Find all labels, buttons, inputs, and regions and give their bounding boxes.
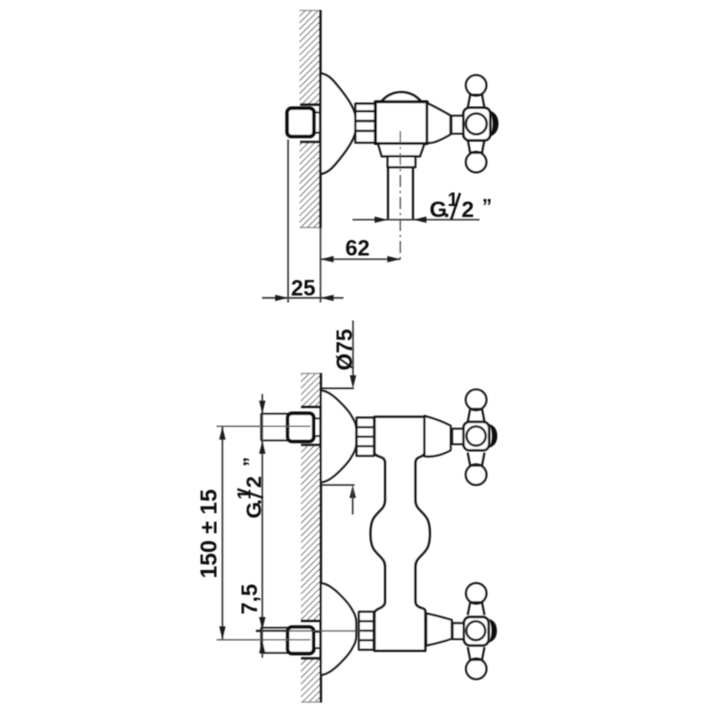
lower handle hub circle (front view) <box>466 621 485 640</box>
extension line square edge (top view) <box>287 140 289 303</box>
upper cone to handle (front view) <box>425 416 451 457</box>
svg-text:62: 62 <box>345 236 369 261</box>
svg-text:”: ” <box>482 196 492 218</box>
dimension diameter 75 (front view) <box>321 321 357 515</box>
upper handle top ball (front view) <box>466 390 487 411</box>
valve body (top view) <box>375 102 427 144</box>
svg-text:”: ” <box>241 457 262 467</box>
upper handle bottom neck (front view) <box>468 453 485 466</box>
handle stem (top view) <box>452 116 464 134</box>
dimension 62 (top view) <box>321 236 401 263</box>
lower handle top neck (front view) <box>468 602 485 615</box>
svg-text:7,5: 7,5 <box>237 584 262 615</box>
upper handle end cap (front view) <box>489 424 497 448</box>
lower inlet square fitting (front view) <box>217 627 365 654</box>
handle top ball (top view) <box>466 75 486 95</box>
upper handle hub (front view) <box>464 422 490 450</box>
handle bottom ball (top view) <box>466 152 486 172</box>
lower ribbed collar (front view) <box>359 612 374 650</box>
dimension G.1/2 (top view) <box>353 190 493 223</box>
wall hatch (front view) <box>301 373 321 703</box>
cone to handle (top view) <box>427 103 450 143</box>
lower handle bottom ball (front view) <box>466 659 486 679</box>
upper escutcheon bell (front view) <box>321 390 356 482</box>
upper handle stem (front view) <box>452 429 463 444</box>
extension line wall face (top view) <box>320 228 322 303</box>
mixer body (front view) <box>371 417 430 651</box>
dimension 25 (top view) <box>262 275 344 301</box>
valve dome cap (top view) <box>381 92 422 102</box>
upper handle top neck (front view) <box>468 409 485 422</box>
dimension 150 plus minus 15 (front view) <box>195 427 225 640</box>
lower handle top ball (front view) <box>466 583 486 603</box>
svg-text:150 ± 15: 150 ± 15 <box>195 489 221 579</box>
handle end cap (top view) <box>490 111 499 137</box>
outlet band (top view) <box>388 156 416 167</box>
handle bottom neck (top view) <box>468 140 485 153</box>
wall hatch (top view) <box>300 10 321 228</box>
lower escutcheon bell (front view) <box>321 583 356 675</box>
upper ribbed collar (front view) <box>357 418 374 456</box>
upper handle bottom ball (front view) <box>466 464 487 485</box>
handle top neck (top view) <box>468 95 485 108</box>
wall face line (top view) <box>300 10 320 228</box>
svg-text:25: 25 <box>291 275 315 300</box>
dimension G.1/2 rotated (front view) <box>234 394 266 658</box>
ribbed collar (top view) <box>355 104 375 143</box>
outlet pipe (top view) <box>388 167 413 219</box>
dimension 7,5 (front view) <box>237 584 266 653</box>
lower handle end cap (front view) <box>489 619 497 643</box>
pipe centerline (top view) <box>399 131 401 263</box>
lower handle stem (front view) <box>453 623 464 639</box>
wall face line (front view) <box>301 373 321 703</box>
svg-text:2: 2 <box>242 476 266 488</box>
handle hub (top view) <box>463 108 490 141</box>
svg-text:2: 2 <box>462 197 475 222</box>
handle hub circle (top view) <box>466 114 487 135</box>
lower cone to handle (front view) <box>426 613 452 645</box>
upper inlet square fitting (front view) <box>217 413 321 441</box>
upper handle hub circle (front view) <box>467 426 486 445</box>
escutcheon bell (top view) <box>321 73 357 174</box>
inlet square fitting (top view) <box>287 108 320 136</box>
lower handle bottom neck (front view) <box>468 647 485 660</box>
lower handle hub (front view) <box>464 617 489 645</box>
outlet nut (top view) <box>378 144 424 157</box>
